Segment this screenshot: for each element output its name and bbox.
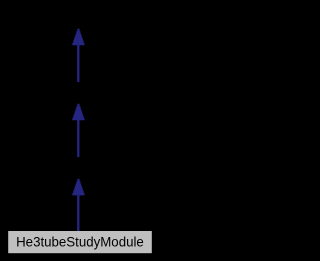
arrow 3 (bottom inheritance edge) <box>72 179 84 231</box>
doxygen-style inheritance graph for He3tubeStudyModule on black background <box>0 0 157 261</box>
svg-text:He3tubeStudyModule: He3tubeStudyModule <box>16 234 144 250</box>
node He3tubeStudyModule (current class, grey box) <box>8 231 152 253</box>
arrow 1 (top inheritance edge) <box>72 29 84 82</box>
arrow 2 (middle inheritance edge) <box>72 104 84 157</box>
